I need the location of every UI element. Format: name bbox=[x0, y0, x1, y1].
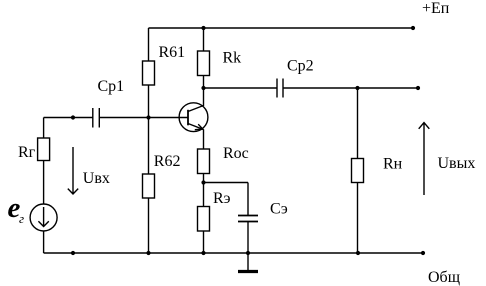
junction Rэ / bottom rail bbox=[201, 251, 205, 255]
wire source bottom to rail corner bbox=[43, 231, 45, 253]
svg-text:Cp2: Cp2 bbox=[287, 58, 314, 75]
wire base node to R62 bbox=[148, 118, 150, 175]
junction Сэ / bottom rail bbox=[246, 251, 250, 255]
wire emitter down to Roc bbox=[203, 130, 205, 150]
wire Rk top bbox=[203, 28, 205, 51]
wire emitter node to Сэ branch bbox=[204, 183, 249, 216]
ground stub bbox=[247, 253, 249, 270]
svg-text:R61: R61 bbox=[159, 44, 186, 61]
transistor VT1 collector lead bbox=[188, 106, 204, 112]
wire bottom common rail bbox=[44, 252, 423, 254]
node bottom rail end (Общ terminal) bbox=[421, 251, 425, 255]
svg-text:R62: R62 bbox=[154, 153, 181, 170]
wire emitter node to Rэ bbox=[203, 183, 205, 207]
svg-text:Rг: Rг bbox=[18, 144, 36, 161]
resistor Rk bbox=[198, 51, 210, 76]
wire Rн bottom to rail bbox=[357, 183, 359, 254]
svg-text:Cp1: Cp1 bbox=[98, 78, 125, 95]
transistor VT1 base bar bbox=[187, 110, 189, 126]
capacitor Cp2 bbox=[277, 79, 283, 98]
wire Сэ bottom to rail bbox=[247, 222, 249, 254]
node output terminal bbox=[416, 86, 420, 90]
resistor Roc bbox=[198, 149, 210, 174]
arrow Uвх bbox=[68, 147, 78, 194]
wire collector node down to transistor bbox=[203, 88, 205, 106]
capacitor Cp1 bbox=[93, 108, 100, 128]
ground bbox=[238, 270, 258, 273]
capacitor Сэ bbox=[238, 216, 258, 222]
junction Rн / bottom rail bbox=[356, 251, 360, 255]
wire Rг top to input wire corner bbox=[43, 118, 45, 139]
wire Rk bottom to collector node bbox=[203, 76, 205, 89]
svg-text:Rн: Rн bbox=[383, 156, 403, 173]
wire R61 top bbox=[148, 28, 150, 61]
arrow Uвых bbox=[419, 123, 430, 195]
resistor Rн bbox=[352, 159, 364, 183]
wire R62 bottom to ground rail bbox=[148, 198, 150, 253]
wire R61 bottom to base node bbox=[148, 85, 150, 118]
junction input node bbox=[71, 115, 75, 119]
junction emitter node bbox=[201, 180, 205, 184]
resistor R62 bbox=[143, 174, 155, 198]
transistor VT1 body bbox=[179, 103, 208, 132]
wire Roc bottom to emitter node bbox=[203, 174, 205, 183]
junction collector branch / top rail bbox=[201, 26, 205, 30]
node top rail end (+Еп terminal) bbox=[411, 26, 415, 30]
wire top supply rail bbox=[149, 27, 414, 29]
source ег arrow bbox=[38, 207, 48, 227]
wire source top to Rг bbox=[43, 161, 45, 205]
junction R62 / bottom rail bbox=[146, 251, 150, 255]
source ег body bbox=[30, 204, 57, 231]
wire collector node to Cp2 bbox=[204, 87, 278, 89]
wire Cp2 to output bbox=[283, 87, 418, 89]
wire input to Cp1 bbox=[44, 117, 93, 119]
svg-text:Rk: Rk bbox=[223, 50, 242, 67]
svg-text:г: г bbox=[19, 211, 24, 226]
wire Rн top bbox=[357, 88, 359, 159]
junction collector node bbox=[201, 86, 205, 90]
resistor Rг bbox=[38, 138, 50, 161]
junction base node bbox=[146, 115, 150, 119]
transistor VT1 emitter lead bbox=[188, 124, 203, 130]
svg-text:Сэ: Сэ bbox=[270, 201, 288, 218]
wire Cp1 to base bbox=[99, 117, 188, 119]
svg-text:Roc: Roc bbox=[223, 145, 249, 162]
svg-text:Общ: Общ bbox=[428, 269, 460, 286]
svg-text:Uвых: Uвых bbox=[438, 155, 476, 172]
resistor Rэ bbox=[198, 207, 210, 232]
junction Rн branch / output wire bbox=[355, 86, 359, 90]
svg-text:+Еп: +Еп bbox=[422, 0, 450, 17]
transistor VT1 emitter arrowhead bbox=[195, 124, 203, 130]
wire Rэ bottom to rail bbox=[203, 231, 205, 253]
svg-text:Rэ: Rэ bbox=[213, 190, 231, 207]
junction input port / bottom rail bbox=[71, 251, 75, 255]
svg-text:Uвх: Uвх bbox=[83, 170, 110, 187]
resistor R61 bbox=[143, 61, 155, 85]
